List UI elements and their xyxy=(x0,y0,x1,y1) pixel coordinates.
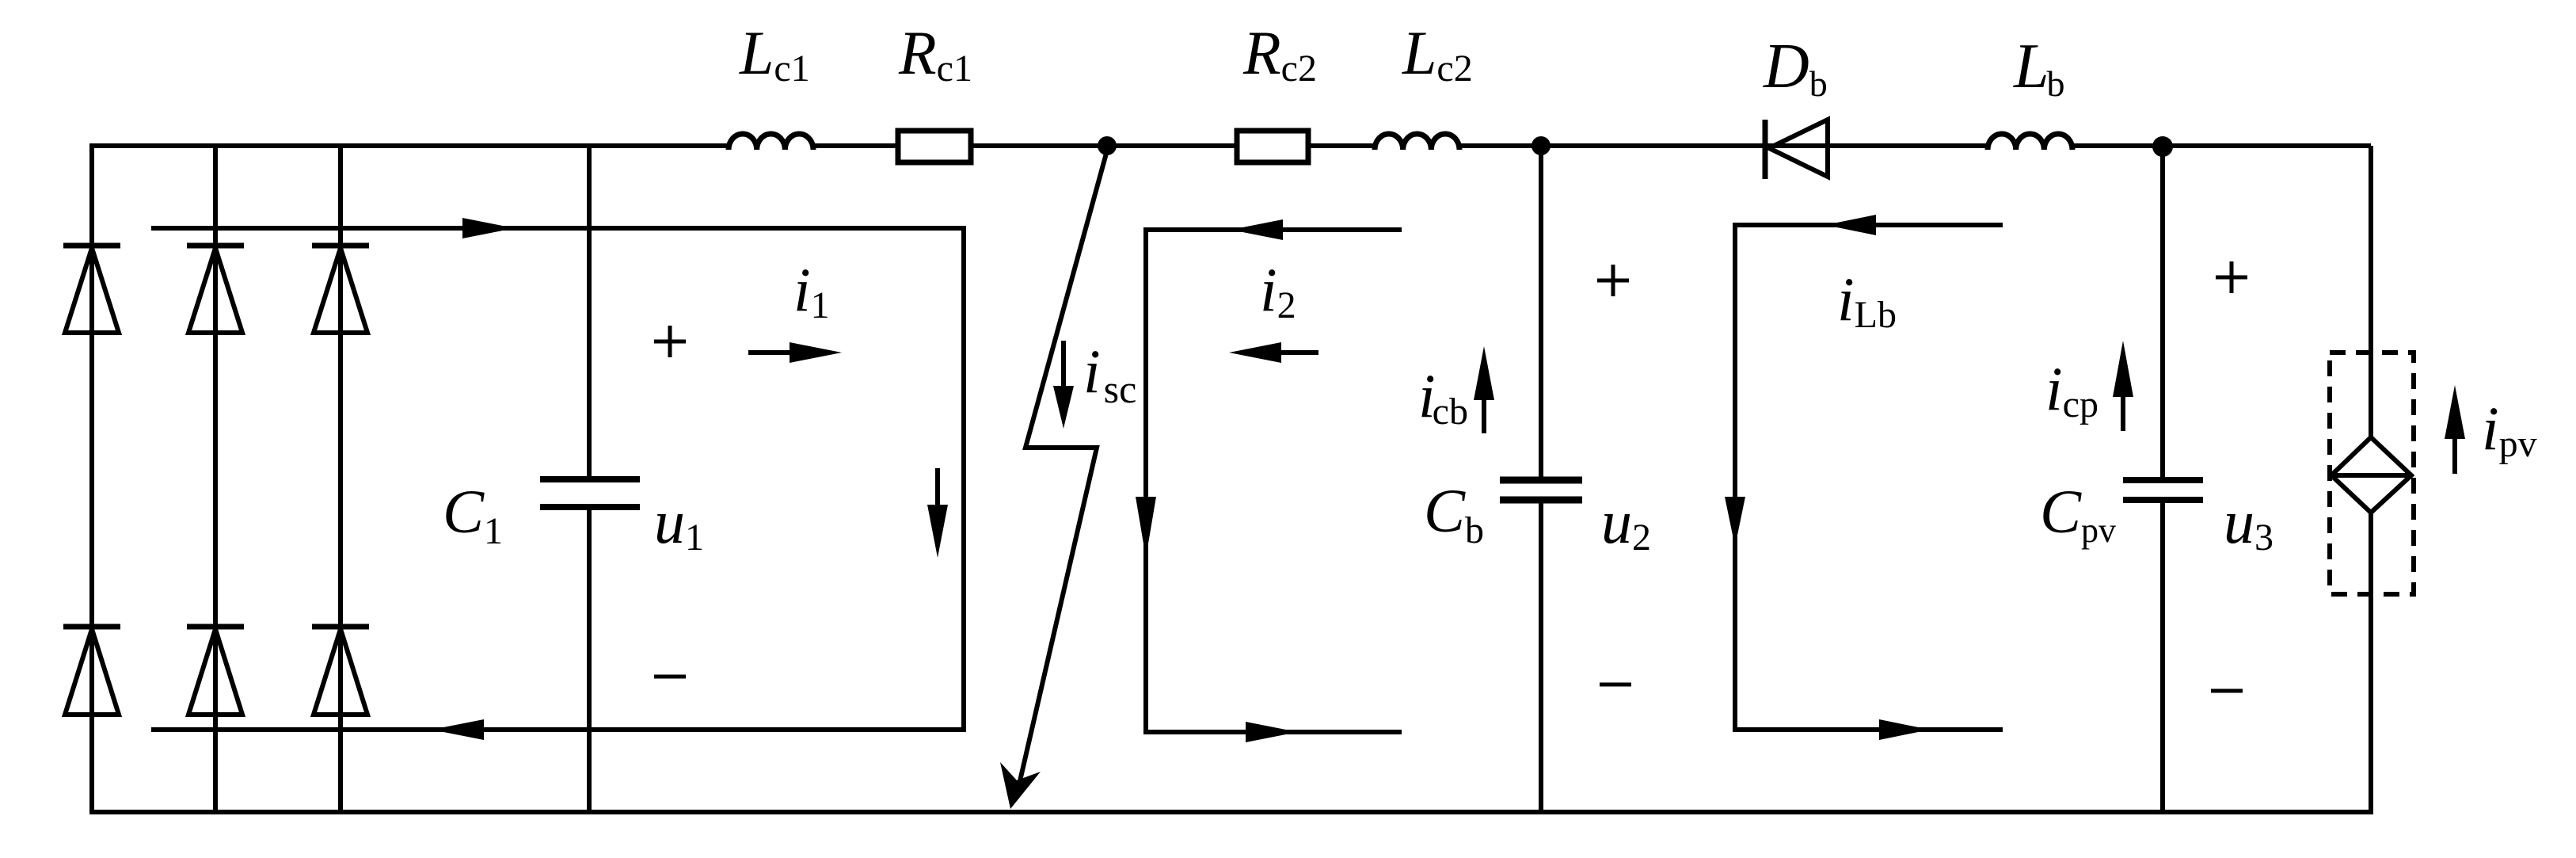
label icp xyxy=(2045,354,2098,425)
minus sign u2 xyxy=(1600,683,1631,687)
current source diamond xyxy=(2331,437,2411,513)
wire isc lightning bolt xyxy=(1000,151,1107,809)
arrow ipv upward xyxy=(2445,385,2465,474)
label ipv xyxy=(2482,394,2537,465)
wire top bus segment 3 (Rc1 to Rc2) xyxy=(972,143,1235,148)
label Lc1 xyxy=(739,18,810,90)
inductor Lc2 xyxy=(1375,134,1459,150)
inductor Lc1 xyxy=(729,134,813,150)
arrow i1 downward (inside loop) xyxy=(927,468,948,558)
wire Cpv branch upper xyxy=(2160,146,2165,482)
wire bridge leg 2 xyxy=(213,146,218,812)
wire Cpv branch lower xyxy=(2160,498,2165,812)
arrow iLb downward (on loop left edge) xyxy=(1725,497,1745,547)
label i2 xyxy=(1260,255,1296,326)
node isc junction xyxy=(1098,136,1117,155)
label u1 xyxy=(654,487,704,559)
label u3 xyxy=(2224,487,2274,559)
plus sign u2 xyxy=(1597,265,1629,296)
label Cpv xyxy=(2040,477,2116,550)
arrow on iLb loop bottom (rightward) xyxy=(1879,719,1930,740)
wire C1 branch upper xyxy=(587,146,592,482)
diode D3 (upper, leg x=430) xyxy=(312,246,369,333)
label Lb xyxy=(2013,32,2065,104)
arrow on i2 loop bottom (rightward) xyxy=(1246,722,1298,742)
diode D1 (upper, leg x=116) xyxy=(63,246,120,333)
wire top bus segment 5 (Lc2 to Lb) xyxy=(1459,143,1988,148)
wire i2 loop (top, left edge, bottom) xyxy=(1146,230,1402,732)
label Rc1 xyxy=(898,18,972,90)
wire top bus segment 6 (Lb to right corner) xyxy=(2072,143,2371,148)
wire pv source branch lower xyxy=(2369,511,2373,814)
wire C1 branch lower xyxy=(587,505,592,812)
arrow i2 downward (on loop left edge) xyxy=(1136,497,1156,558)
wire Cb branch upper xyxy=(1539,146,1543,482)
wire top bus segment 4 (Rc2 to Lc2) xyxy=(1310,143,1376,148)
arrow isc downward xyxy=(1053,341,1074,429)
arrow on i2 loop top (leftward) xyxy=(1231,219,1283,240)
label iLb xyxy=(1837,265,1897,336)
diode Db xyxy=(1765,120,1828,179)
plus sign u1 xyxy=(654,326,686,357)
capacitor Cb xyxy=(1500,480,1582,500)
capacitor C1 xyxy=(540,479,640,507)
diode D6 (lower, leg x=430) xyxy=(312,627,369,715)
wire bottom bus xyxy=(92,810,2371,814)
label Lc2 xyxy=(1402,18,1473,90)
label icb xyxy=(1418,361,1468,433)
diode D4 (lower, leg x=116) xyxy=(63,627,120,715)
wire top bus segment 1 (left corner to Lc1) xyxy=(92,143,729,148)
wire i1 loop (top, right edge, bottom) xyxy=(151,228,964,730)
wire top bus segment 2 (Lc1 to Rc1) xyxy=(812,143,896,148)
node Cb junction xyxy=(1532,136,1551,155)
wire bridge leg 3 xyxy=(338,146,343,812)
arrow on iLb loop top (leftward) xyxy=(1825,215,1876,235)
capacitor Cpv xyxy=(2123,480,2203,500)
label isc xyxy=(1083,337,1136,411)
label u2 xyxy=(1601,487,1651,559)
minus sign u1 xyxy=(654,675,686,679)
arrow i2 direction (leftward) xyxy=(1229,342,1318,363)
label Db xyxy=(1763,32,1828,104)
diode D2 (upper, leg x=272) xyxy=(187,246,244,333)
minus sign u3 xyxy=(2211,689,2243,693)
wire iLb loop (top, left edge, bottom) xyxy=(1735,225,2003,730)
arrow on i1 loop bottom (leftward) xyxy=(432,719,484,740)
label i1 xyxy=(793,255,830,326)
label Cb xyxy=(1424,476,1484,551)
label Rc2 xyxy=(1242,18,1317,90)
resistor Rc2 xyxy=(1237,131,1308,162)
label C1 xyxy=(443,477,503,552)
wire pv source branch upper xyxy=(2369,146,2373,440)
node Cpv junction xyxy=(2152,136,2173,157)
wire left bridge leg 1 xyxy=(89,143,94,814)
wire Cb branch lower xyxy=(1539,498,1543,812)
resistor Rc1 xyxy=(898,131,971,162)
arrow on i1 loop top (rightward) xyxy=(462,218,515,238)
diode D5 (lower, leg x=272) xyxy=(187,627,244,715)
dashed box of pv source xyxy=(2330,353,2414,594)
plus sign u3 xyxy=(2216,261,2247,293)
arrow icp upward xyxy=(2113,341,2133,431)
arrow i1 direction (rightward) xyxy=(748,342,842,363)
inductor Lb xyxy=(1988,134,2072,150)
arrow icb upward xyxy=(1474,346,1494,433)
